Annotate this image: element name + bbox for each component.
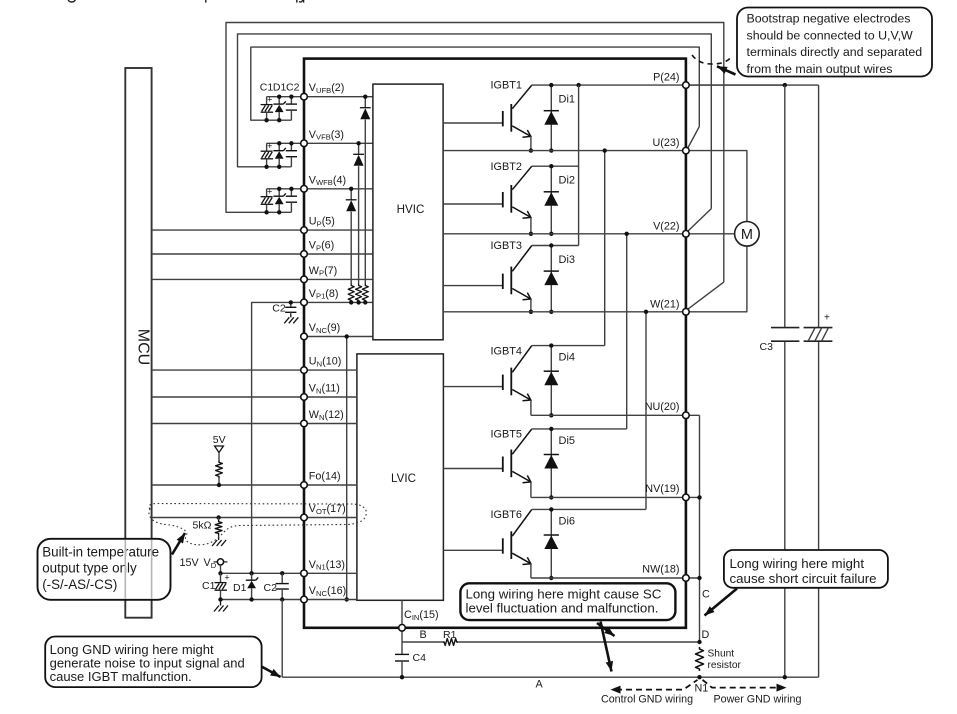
svg-text:Fo(14): Fo(14) [309, 471, 341, 483]
wire IGBT1 emitter [530, 136, 532, 150]
svg-text:level fluctuation and malfunct: level fluctuation and malfunction. [466, 601, 659, 616]
svg-text:P(24): P(24) [653, 72, 679, 84]
pin VOT(17) [301, 514, 308, 521]
pin VN(11) [301, 394, 308, 401]
arrow from short circuit note [705, 589, 738, 616]
wire VP1(8) external to 15V supply [252, 302, 304, 573]
pin VWFB(4) [301, 186, 308, 193]
resistor internal bootstrap 3 [348, 284, 354, 303]
junction dots on rail A [400, 675, 404, 679]
svg-text:VOT(17): VOT(17) [309, 503, 346, 516]
capacitor C1 (bootstrap W-phase electrolytic) [266, 189, 268, 197]
junction dots IGBT4 [549, 343, 553, 347]
wire pin VWFB to HVIC [304, 188, 373, 190]
diode Di1 [550, 85, 552, 151]
resistor internal bootstrap 2 [356, 284, 362, 303]
wire bootstrap top rail at VUFB [267, 96, 304, 98]
svg-text:Di6: Di6 [559, 515, 576, 527]
svg-text:LVIC: LVIC [391, 472, 416, 485]
pin UN(10) [301, 367, 308, 374]
pin WN(12) [301, 420, 308, 427]
svg-text:V(22): V(22) [653, 220, 679, 232]
pin V(22) [683, 231, 690, 238]
svg-text:D1: D1 [273, 81, 287, 93]
wire diagonal to V terminal [688, 209, 712, 232]
wire internal bootstrap branch 1 [364, 97, 366, 108]
svg-text:+: + [267, 141, 272, 151]
svg-text:B: B [420, 629, 427, 641]
junction dots IGBT5 [549, 427, 553, 431]
capacitor C2 (bootstrap U-phase) [290, 97, 292, 104]
wire pin VP1 to HVIC [304, 301, 373, 303]
arrow from built-in temperature note [172, 533, 185, 555]
svg-text:terminals directly and separat: terminals directly and separated [747, 45, 923, 59]
svg-text:MCU: MCU [134, 329, 151, 365]
arrow from bootstrap note [717, 66, 736, 74]
shunt resistor [696, 647, 704, 671]
capacitor C1 electrolytic at VD [220, 573, 222, 582]
wire pin VUFB to HVIC [304, 96, 373, 98]
diode internal bootstrap 1 [360, 107, 371, 109]
wire bootstrap U-phase return loop [251, 47, 700, 127]
wire diagonal to W terminal [688, 282, 724, 309]
arrow from long GND note [262, 667, 281, 678]
diode Di6 [550, 509, 552, 578]
transistor IGBT5 [443, 429, 531, 483]
junction dots IGBT1 [549, 83, 553, 87]
pin NV(19) [683, 494, 690, 501]
svg-text:Long wiring here might cause S: Long wiring here might cause SC [466, 587, 662, 602]
svg-text:M: M [741, 227, 753, 243]
svg-text:NV(19): NV(19) [645, 483, 679, 495]
junction P rail [576, 83, 580, 87]
junction dots VNC(16) rail [218, 597, 222, 601]
pin NW(18) [683, 575, 690, 582]
wire V(22) rail [443, 233, 686, 235]
junction dots internal bootstrap [363, 95, 367, 99]
wire pin WP to HVIC [304, 278, 373, 280]
wire pin VN1 to LVIC [304, 572, 357, 574]
wire W(21) rail [443, 311, 686, 313]
svg-text:W(21): W(21) [650, 298, 679, 310]
pin WP(7) [301, 276, 308, 283]
wire node B line to D [402, 641, 443, 643]
svg-text:C2: C2 [264, 582, 278, 594]
junction V rail [625, 232, 629, 236]
wire V branch to IGBT5 collector [626, 234, 628, 429]
motor M [686, 233, 735, 235]
svg-text:cause IGBT malfunction.: cause IGBT malfunction. [50, 669, 192, 684]
svg-text:NW(18): NW(18) [642, 564, 679, 576]
capacitor C2 (bootstrap W-phase) [290, 189, 292, 196]
pin VNC(16) [301, 596, 308, 603]
wire MCU to VOT(17) [152, 517, 304, 519]
junction dots 15V rail [218, 571, 222, 575]
pin U(23) [683, 147, 690, 154]
svg-text:IGBT4: IGBT4 [491, 345, 522, 357]
wire MCU to WN(12) [152, 423, 304, 425]
junction dots internal bootstrap [349, 187, 353, 191]
svg-text:IGBT5: IGBT5 [491, 429, 522, 441]
wire internal bootstrap branch 2 [358, 143, 360, 154]
wire MCU to UN(10) [152, 369, 304, 371]
resistor R1 [443, 639, 459, 646]
svg-text:resistor: resistor [708, 660, 742, 671]
svg-text:WN(12): WN(12) [309, 409, 344, 422]
wire IGBT3 collector rail [532, 245, 579, 247]
junction dots internal bootstrap [356, 141, 360, 145]
svg-text:+: + [224, 572, 229, 582]
pin VP1(8) [301, 299, 308, 306]
capacitor C2 at VD [281, 573, 283, 583]
wire pin VOT to LVIC [304, 517, 357, 519]
svg-text:R1: R1 [443, 629, 457, 641]
svg-text:output type only: output type only [42, 561, 137, 576]
clipped caption text fragments at top edge [68, 0, 304, 3]
gray MCU edges over note box [124, 540, 126, 599]
ground at C2 VP1 [284, 314, 298, 324]
block LVIC U2 [357, 354, 444, 600]
svg-text:+: + [824, 313, 830, 324]
pin VP(6) [301, 251, 308, 258]
svg-text:5V: 5V [213, 434, 226, 446]
junction 5V resistor at Fo [217, 483, 221, 487]
svg-text:VN(11): VN(11) [309, 383, 340, 396]
svg-text:VNC(16): VNC(16) [309, 585, 346, 598]
MCU block [125, 68, 151, 618]
svg-text:IGBT2: IGBT2 [491, 161, 522, 173]
svg-text:U(23): U(23) [653, 137, 680, 149]
svg-text:cause short circuit failure: cause short circuit failure [730, 571, 877, 586]
wire IGBT4 emitter [530, 400, 532, 415]
svg-text:C: C [702, 589, 710, 601]
svg-text:UN(10): UN(10) [309, 356, 342, 369]
svg-text:5kΩ: 5kΩ [193, 520, 212, 532]
wire IGBT6 emitter [530, 564, 532, 578]
svg-text:(-S/-AS/-CS): (-S/-AS/-CS) [42, 577, 117, 592]
pin CIN(15) terminal [399, 625, 406, 632]
dotted outline temperature option [149, 504, 366, 545]
wire ground rail A [283, 676, 819, 678]
diode Di2 [550, 166, 552, 234]
svg-text:Control GND wiring: Control GND wiring [601, 694, 693, 706]
svg-text:should be connected to U,V,W: should be connected to U,V,W [747, 28, 914, 42]
wire IGBT6 collector rail [532, 508, 646, 510]
junction dots IGBT6 [549, 507, 553, 511]
diode D1 (bootstrap U-phase) [278, 97, 280, 104]
svg-text:C1: C1 [260, 81, 274, 93]
svg-text:HVIC: HVIC [397, 203, 425, 216]
note box bootstrap electrodes [737, 8, 932, 77]
svg-text:Di3: Di3 [559, 254, 576, 266]
pin VN1(13) [301, 570, 308, 577]
wire IGBT3 emitter [530, 299, 532, 312]
diode D1 (bootstrap W-phase) [278, 189, 280, 196]
junction node D [697, 640, 701, 644]
pin P(24) [683, 82, 690, 89]
wire pin Fo to LVIC [304, 484, 357, 486]
transistor IGBT3 [443, 246, 532, 300]
dashed arrow Control GND wiring [616, 680, 698, 690]
wire bootstrap V-phase return loop [238, 34, 712, 209]
svg-text:C4: C4 [413, 652, 427, 664]
wire NU(20) rail [531, 414, 700, 416]
wire NW(18) rail [531, 577, 700, 579]
transistor IGBT6 [443, 509, 531, 564]
svg-text:Power GND wiring: Power GND wiring [714, 694, 802, 706]
svg-text:IGBT6: IGBT6 [491, 509, 522, 521]
wire pin UP to HVIC [304, 229, 373, 231]
junction U rail [603, 148, 607, 152]
arrow from SC note to R1 wire [597, 623, 615, 636]
wire N bus down to node D [699, 415, 701, 642]
wire W branch to IGBT6 collector [645, 312, 647, 510]
transistor IGBT4 [443, 346, 531, 401]
svg-text:UP(5): UP(5) [309, 216, 335, 229]
wire MCU to VP(6) [152, 253, 304, 255]
wire CIN(15) pin [401, 600, 403, 642]
svg-text:+: + [267, 94, 272, 104]
svg-text:15V: 15V [180, 557, 200, 569]
pin VVFB(3) [301, 140, 308, 147]
svg-text:+: + [267, 187, 272, 197]
wire pin VVFB to HVIC [304, 142, 373, 144]
svg-text:C3: C3 [760, 341, 774, 353]
wire diagonal to U terminal [688, 127, 700, 148]
pin VUFB(2) [301, 93, 308, 100]
dashed arrow Power GND wiring [703, 680, 780, 688]
wire pin VNC(9) to HVIC [304, 336, 373, 338]
pin VNC(9) [301, 333, 308, 340]
wire IGBT5 emitter [530, 482, 532, 498]
wire bootstrap top rail at VVFB [267, 142, 304, 144]
wire internal bootstrap branch 3 [350, 189, 352, 200]
capacitor C3 smoothing electrolytic [784, 85, 786, 328]
svg-text:C2: C2 [286, 81, 300, 93]
junction dots bootstrap group [277, 95, 281, 99]
wire control GND down to rail A [281, 600, 283, 678]
junction dots IGBT3 [549, 243, 553, 247]
junction dots bootstrap group [277, 141, 281, 145]
wire MCU to Fo(14) [152, 484, 304, 486]
wire bootstrap W-phase return loop [226, 23, 724, 283]
diode internal bootstrap 2 [353, 153, 364, 155]
svg-text:C2: C2 [272, 303, 286, 315]
svg-text:Di2: Di2 [559, 175, 576, 187]
wire IGBT2 collector rail [532, 165, 579, 167]
diode internal bootstrap 3 [346, 199, 357, 201]
resistor 5k at VOT [216, 515, 220, 519]
pin Fo(14) [301, 482, 308, 489]
svg-text:Bootstrap negative electrodes: Bootstrap negative electrodes [747, 12, 911, 26]
svg-text:C1: C1 [202, 580, 216, 592]
pin UP(5) [301, 227, 308, 234]
diode Di5 [550, 429, 552, 498]
wire pin VN to LVIC [304, 396, 357, 398]
wire 15V rail to VN1(13) [221, 572, 305, 574]
junction dots IGBT2 [549, 164, 553, 168]
svg-text:VP(6): VP(6) [309, 240, 334, 253]
diode Di3 [550, 246, 552, 312]
op-amp block HVIC U1 [373, 84, 443, 340]
ground below 5k resistor [212, 537, 226, 547]
junction VP1 C2 branch [289, 300, 293, 304]
wire P to IGBT2/IGBT3 collectors [578, 85, 580, 245]
wire bootstrap top rail at VWFB [267, 188, 304, 190]
note box short circuit failure [724, 550, 888, 588]
capacitor C2 at VP1 pin [290, 302, 292, 307]
svg-text:D1: D1 [233, 582, 247, 594]
junction N bus [697, 495, 701, 499]
svg-text:N1: N1 [695, 683, 709, 695]
junction VNC(9) branch [345, 334, 349, 338]
svg-text:Di5: Di5 [559, 435, 576, 447]
wire MCU to VN(11) [152, 396, 304, 398]
capacitor C1 (bootstrap U-phase electrolytic) [266, 97, 268, 105]
wire IGBT2 emitter [530, 217, 532, 233]
diode Di4 [550, 346, 552, 416]
wire P(24) rail [686, 84, 819, 86]
transistor IGBT1 [443, 85, 532, 137]
wire IGBT5 collector rail [532, 428, 627, 430]
svg-text:from the main output wires: from the main output wires [747, 62, 893, 76]
dashed bootstrap wire route hint [692, 55, 730, 64]
diode D1 (bootstrap V-phase) [278, 143, 280, 150]
svg-text:Di1: Di1 [559, 93, 576, 105]
svg-text:IGBT1: IGBT1 [491, 80, 522, 92]
wire pin UN to LVIC [304, 369, 357, 371]
IPM module outline [304, 59, 686, 628]
svg-text:Built-in temperature: Built-in temperature [42, 544, 159, 559]
svg-text:NU(20): NU(20) [645, 401, 680, 413]
svg-text:Long wiring here might: Long wiring here might [730, 556, 865, 571]
transistor IGBT2 [443, 166, 532, 218]
pin W(21) [683, 309, 690, 316]
svg-text:Shunt: Shunt [708, 649, 735, 660]
junction W rail [644, 310, 648, 314]
ground below C1 [220, 600, 222, 603]
wire pin VP to HVIC [304, 253, 373, 255]
note box long GND wiring [45, 637, 261, 688]
resistor internal bootstrap 1 [362, 284, 368, 303]
svg-text:A: A [536, 679, 544, 691]
junction dots bootstrap group [277, 187, 281, 191]
wire MCU to UP(5) [152, 229, 304, 231]
terminal 15V VD [214, 561, 218, 563]
wire U branch to IGBT4 collector [604, 151, 606, 346]
svg-text:VN1(13): VN1(13) [309, 559, 345, 572]
capacitor C1 (bootstrap V-phase electrolytic) [266, 143, 268, 151]
pin NU(20) [683, 412, 690, 419]
wire pin VNC(16) line [221, 599, 357, 601]
capacitor C4 [401, 642, 403, 654]
capacitor C2 (bootstrap V-phase) [290, 143, 292, 150]
wire NV(19) rail [531, 496, 700, 498]
note box built-in temperature [38, 539, 171, 600]
note box SC level fluctuation [460, 583, 675, 620]
svg-text:Di4: Di4 [559, 352, 576, 364]
diode D1 zener at VD [251, 573, 253, 580]
wire MCU to WP(7) [152, 278, 304, 280]
wire IGBT4 collector rail [532, 345, 605, 347]
svg-text:CIN(15): CIN(15) [404, 609, 439, 622]
wire U(23) rail [443, 150, 686, 152]
wire IGBT1 collector rail [532, 84, 785, 86]
arrow from SC note to rail A [601, 622, 612, 672]
wire VNC(9) down to VNC(16) node [346, 337, 348, 600]
wire pin WN to LVIC [304, 423, 357, 425]
svg-text:IGBT3: IGBT3 [491, 240, 522, 252]
svg-text:D: D [702, 629, 710, 641]
